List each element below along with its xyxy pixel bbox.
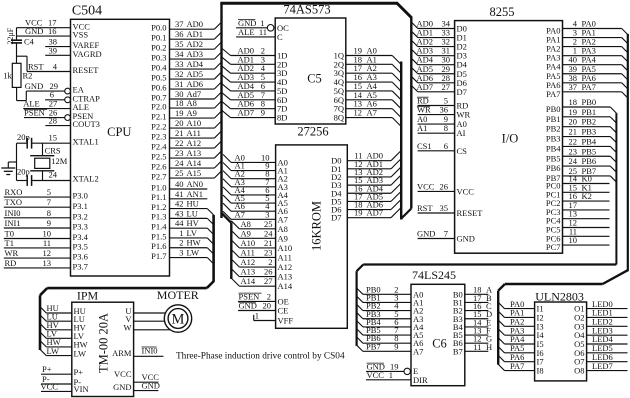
svg-text:22: 22 (569, 136, 578, 146)
wire PB bus to C6 A5 (PB5 7) (357, 329, 363, 335)
svg-text:6: 6 (444, 141, 448, 151)
wire C5 3Q stub A2 (346, 72, 392, 74)
svg-text:W: W (123, 323, 131, 333)
wire 27256 D6 stub AD6 (347, 209, 391, 211)
wire P1 bus to IPM LU (40, 315, 46, 321)
wire bus to 8255 D1 (AD1 33) (411, 31, 418, 38)
svg-text:O8: O8 (574, 366, 584, 376)
wire P1 bus to IPM LV (40, 332, 46, 338)
svg-text:22: 22 (175, 138, 184, 148)
svg-text:C504: C504 (72, 3, 102, 18)
svg-text:LW: LW (187, 248, 200, 258)
svg-text:GND: GND (142, 381, 160, 391)
svg-text:A8: A8 (241, 219, 251, 229)
svg-text:A1: A1 (417, 123, 427, 133)
wire C6 B1 stub 17 B (465, 301, 489, 303)
wire VCC 26 to 8255 (418, 190, 455, 192)
svg-text:CPU: CPU (107, 125, 131, 139)
wire bus to 27256 A0 (223, 154, 231, 162)
wire P1 bus to IPM LW (40, 349, 46, 355)
svg-text:ARM: ARM (112, 348, 132, 358)
svg-text:I/O: I/O (502, 132, 519, 146)
wire CPU P1.6 stub HW (170, 247, 208, 249)
svg-text:16: 16 (48, 26, 57, 36)
svg-text:PB2: PB2 (582, 117, 597, 127)
wire CPU P2.2 stub A10 (170, 127, 215, 129)
svg-text:AD3: AD3 (187, 49, 204, 59)
wire CPU P0.3 stub AD3 (170, 58, 215, 60)
wire bus to C5 1D (AD0 2) (222, 48, 231, 56)
svg-text:P3.6: P3.6 (73, 252, 88, 262)
wire bus to C5 3D (AD2 4) (222, 66, 231, 74)
motor M (three-phase) (164, 305, 191, 332)
IPM right pin names (112, 306, 132, 392)
svg-text:T1: T1 (5, 238, 14, 248)
wire 27256 D3 stub AD3 (347, 184, 391, 186)
wire CPU P1.2 stub HU (170, 208, 208, 210)
wire PB bus to C6 A6 (PB6 8) (357, 337, 363, 343)
svg-text:COUT3: COUT3 (73, 119, 100, 129)
bus PA chamfer to vertical (498, 284, 505, 291)
wire bus to 27256 A11 (231, 249, 239, 257)
wire bus to C5 2D (AD1 3) (222, 57, 231, 65)
svg-text:44: 44 (175, 218, 184, 228)
wire VCC stub to IPM VIN (41, 390, 72, 392)
wire bus to C5 5D (AD4 6) (222, 83, 231, 91)
svg-text:24: 24 (569, 156, 578, 166)
resistor R2 1k (12, 63, 21, 87)
bus PB horizontal (363, 263, 616, 265)
svg-text:A14: A14 (278, 281, 293, 291)
wire IPM GND stub (134, 390, 159, 392)
bus P1 vertical at IPM (39, 295, 42, 350)
bus P1 HU-LW vertical near CPU (212, 215, 215, 282)
wire PSEN 2 to 27256 OE (238, 300, 276, 302)
wire bus to 27256 A4 (223, 187, 231, 195)
8255 right pin names (546, 26, 561, 253)
wire C6 B3 stub 15 D (465, 318, 489, 320)
svg-text:20: 20 (175, 118, 184, 128)
wire bus to 27256 A12 (231, 259, 239, 267)
CPU right pin names P0 P2 P1 (151, 23, 167, 261)
wire pin 1 to 27256 VFF (254, 320, 276, 322)
ULN2803 pin names (537, 304, 586, 376)
wire CPU P0.5 stub AD5 (170, 78, 215, 80)
wire bus to C5 8D (AD7 9) (222, 110, 231, 118)
wire A0 9 to 8255 (418, 123, 455, 125)
wire ULN2803 O3 stub LED2 (587, 325, 628, 327)
wire bus to 8255 D0 (AD0 34) (411, 22, 418, 29)
svg-text:23: 23 (569, 146, 578, 156)
wire bus to 27256 A8 (231, 221, 239, 229)
svg-text:PB3: PB3 (546, 134, 561, 144)
wire CPU P2.1 stub A9 (170, 117, 215, 119)
wire crystal cap rail (16, 143, 18, 180)
wire CPU P0.6 stub AD6 (170, 88, 215, 90)
svg-text:8Q: 8Q (334, 113, 344, 123)
wire PB bus to C6 A4 (PB4 6) (357, 321, 363, 327)
svg-text:22μF: 22μF (6, 27, 15, 44)
wire P+ stub to IPM (41, 373, 72, 375)
wire ALE 11 to C5 C (236, 36, 275, 38)
svg-text:32: 32 (175, 69, 184, 79)
wire bus to 8255 D3 (AD3 31) (411, 49, 418, 56)
bus vertical A0-A7 from 74AS573 outputs (400, 62, 402, 220)
wire C6 B0 stub 18 A (465, 293, 489, 295)
wire PB bus to C6 A1 (PB1 3) (357, 296, 363, 302)
wire PA bus to ULN2803 I5 (PA4) (498, 338, 504, 344)
svg-text:24: 24 (264, 228, 273, 238)
svg-text:A13: A13 (241, 267, 256, 277)
8255 left pin names (457, 24, 484, 244)
wire 8255 PB0 stub to PB bus (563, 106, 611, 108)
wire bus to 27256 A2 (223, 171, 231, 179)
wire bus to C5 6D (AD5 7) (222, 92, 231, 100)
svg-text:A9: A9 (278, 233, 288, 243)
wire C5 2Q stub A1 (346, 63, 392, 65)
svg-text:A11: A11 (241, 247, 255, 257)
wire 8255 PA0 stub to PA bus (563, 28, 622, 30)
svg-text:19: 19 (354, 208, 363, 218)
svg-text:PA7: PA7 (546, 89, 560, 99)
svg-text:I8: I8 (537, 366, 544, 376)
svg-text:TXO: TXO (5, 197, 22, 207)
svg-text:2: 2 (179, 238, 183, 248)
svg-text:A13: A13 (187, 148, 202, 158)
wire RD 5 to 8255 (418, 105, 455, 107)
wire 27256 D5 stub AD5 (347, 200, 391, 202)
bus PB chamfer (357, 265, 364, 272)
wire ULN2803 O5 stub LED4 (587, 343, 628, 345)
wire bus to 27256 A14 (231, 278, 239, 286)
wire 27256 D0 stub AD0 (347, 160, 391, 162)
wire TXO 7 to CPU P3.1 (4, 206, 71, 208)
svg-text:39: 39 (49, 45, 58, 55)
svg-text:37: 37 (569, 82, 578, 92)
svg-text:5: 5 (47, 187, 51, 197)
svg-text:VCC: VCC (367, 370, 385, 380)
capacitor C4 22uF electrolytic (16, 28, 18, 41)
wire 8255 PB7 stub to PB bus (563, 175, 611, 177)
svg-text:DIR: DIR (413, 375, 428, 385)
svg-text:H: H (486, 342, 492, 352)
svg-text:VSS: VSS (73, 30, 89, 40)
wire 8255 PA5 stub to PA bus (563, 73, 622, 75)
svg-text:VCC: VCC (41, 382, 59, 392)
bus lower address vertical (A8-A14) (230, 223, 232, 279)
wire bus to 27256 A13 (231, 269, 239, 277)
wire CPU P2.3 stub A11 (170, 137, 215, 139)
IC ULN2803 driver block (535, 302, 587, 381)
svg-text:20p: 20p (17, 132, 30, 142)
wire C5 7Q stub A6 (346, 108, 392, 110)
ground symbol (earth) (8, 161, 16, 163)
svg-text:PB0: PB0 (546, 104, 561, 114)
svg-text:34: 34 (175, 49, 184, 59)
svg-text:LW: LW (47, 346, 60, 356)
svg-text:P0.3: P0.3 (151, 52, 166, 62)
svg-text:8: 8 (47, 208, 51, 218)
svg-text:A7: A7 (413, 346, 423, 356)
wire ULN2803 O1 stub LED0 (587, 308, 628, 310)
svg-text:15: 15 (49, 133, 58, 143)
wire 8255 PA2 stub to PA bus (563, 46, 622, 48)
wire T0 10 to CPU P3.4 (4, 238, 71, 240)
wire VCC 1 to C6 DIR (366, 379, 411, 381)
wire IPM V to motor (134, 320, 165, 322)
svg-text:C4: C4 (24, 36, 35, 46)
wire INI1 9 to CPU P3.3 (4, 227, 71, 229)
svg-text:33: 33 (175, 59, 184, 69)
svg-text:P0.6: P0.6 (151, 82, 166, 92)
wire PB bus to C6 A0 (PB0 2) (357, 288, 363, 294)
wire 8255 PC0 stub (563, 183, 610, 185)
svg-text:A8: A8 (187, 98, 197, 108)
svg-text:MOTER: MOTER (157, 288, 199, 302)
wire IPM ARM stub INI0 (134, 355, 164, 357)
svg-text:9: 9 (261, 108, 265, 118)
wire C6 B4 stub 14 E (465, 326, 489, 328)
svg-text:43: 43 (175, 208, 184, 218)
svg-text:INI1: INI1 (5, 218, 21, 228)
wire PB bus to C6 A2 (PB2 4) (357, 304, 363, 310)
svg-text:A9: A9 (241, 228, 251, 238)
svg-text:42: 42 (175, 199, 184, 209)
svg-text:P3.3: P3.3 (73, 222, 88, 232)
svg-text:PB4: PB4 (582, 136, 597, 146)
svg-text:P1.0: P1.0 (151, 182, 166, 192)
svg-text:XTAL1: XTAL1 (73, 137, 99, 147)
svg-text:A7: A7 (367, 108, 377, 118)
wire RST 35 to 8255 (418, 212, 455, 214)
svg-text:A14: A14 (187, 158, 202, 168)
wire INI0 8 to CPU P3.2 (4, 217, 71, 219)
svg-text:AN0: AN0 (187, 179, 204, 189)
wire 8255 PC7 stub (563, 244, 610, 246)
svg-text:B7: B7 (453, 346, 463, 356)
wire PA bus to ULN2803 I1 (PA0) (498, 302, 504, 308)
svg-text:A8: A8 (278, 224, 288, 234)
bus P1 diagonal (207, 281, 214, 288)
wire IPM VCC stub (134, 381, 159, 383)
svg-text:P+: P+ (42, 364, 52, 374)
wire 8255 PC1 stub (563, 191, 610, 193)
wire 8255 PB5 stub to PB bus (563, 155, 611, 157)
wire ULN2803 O4 stub LED3 (587, 334, 628, 336)
IPM left pin names (74, 306, 89, 394)
svg-text:GND: GND (113, 382, 131, 392)
svg-text:10: 10 (569, 235, 578, 245)
svg-text:A12: A12 (278, 262, 293, 272)
svg-text:A7: A7 (278, 214, 288, 224)
wire ULN2803 O7 stub LED6 (587, 361, 628, 363)
svg-text:AD7: AD7 (238, 108, 255, 118)
bus PA vertical at ULN2803 (497, 291, 499, 365)
wire 8255 PB2 stub to PB bus (563, 126, 611, 128)
svg-text:PA7: PA7 (582, 82, 596, 92)
wire CPU P1.0 stub AN0 (170, 188, 208, 190)
svg-text:VIN: VIN (74, 384, 89, 394)
svg-text:P1.7: P1.7 (151, 251, 166, 261)
wire 27256 D7 stub AD7 (347, 217, 391, 219)
wire CPU P2.7 stub A15 (170, 177, 215, 179)
svg-text:20p: 20p (17, 167, 30, 177)
svg-text:AN1: AN1 (187, 189, 204, 199)
wire pin 6 to CTRAP (bubble) (45, 99, 65, 101)
svg-text:ALE: ALE (238, 27, 255, 37)
wire P1 bus to IPM HV (40, 324, 46, 330)
bus PB right vertical (615, 113, 617, 264)
svg-text:7: 7 (444, 229, 448, 239)
wire RXO 5 to CPU P3.0 (4, 196, 71, 198)
wire 8255 PC3 stub (563, 209, 610, 211)
wire ULN2803 O6 stub LED5 (587, 352, 628, 354)
svg-text:GND: GND (457, 234, 475, 244)
svg-text:8255: 8255 (490, 5, 515, 19)
svg-text:PB1: PB1 (546, 114, 561, 124)
svg-text:LED7: LED7 (592, 361, 613, 371)
svg-text:LU: LU (187, 208, 198, 218)
svg-text:9: 9 (47, 218, 51, 228)
svg-text:AD0: AD0 (187, 19, 204, 29)
svg-text:P3.2: P3.2 (73, 211, 88, 221)
bus top right diagonal (396, 3, 411, 18)
crystal CRS 12M (42, 143, 44, 156)
svg-text:P2.5: P2.5 (151, 151, 166, 161)
wire CPU P0.1 stub AD1 (170, 38, 215, 40)
svg-text:8D: 8D (277, 113, 287, 123)
CPU left pin names (73, 21, 102, 271)
wire WR 36 to 8255 (418, 114, 455, 116)
svg-text:20: 20 (263, 301, 272, 311)
wire C6 B2 stub 16 C (465, 310, 489, 312)
wire A1 8 to 8255 (418, 132, 455, 134)
svg-text:24: 24 (175, 158, 184, 168)
wire CPU P1.3 stub LU (170, 217, 208, 219)
capacitor 20p on XTAL1 (17, 142, 28, 144)
wire bus to 8255 D4 (AD4 30) (411, 58, 418, 64)
svg-text:VCC: VCC (457, 186, 475, 196)
svg-text:HV: HV (187, 218, 200, 228)
wire bus to C5 7D (AD6 8) (222, 101, 231, 109)
wire C5 6Q stub A5 (346, 99, 392, 101)
svg-text:P0.2: P0.2 (151, 42, 166, 52)
svg-text:XTAL2: XTAL2 (73, 173, 99, 183)
wire GND 1 to C5 OC (bubble) (236, 27, 267, 29)
wire CPU P1.5 stub LV (170, 237, 208, 239)
svg-text:1: 1 (255, 311, 259, 321)
wire pin 38 to VAREF (45, 46, 70, 48)
wire pin 39 to VAGRD (45, 54, 70, 56)
svg-text:M: M (172, 312, 185, 328)
svg-text:C5: C5 (307, 71, 322, 85)
wire bus to 27256 A3 (223, 179, 231, 187)
wire bus to 27256 A7 (223, 211, 231, 219)
svg-text:P0.5: P0.5 (151, 72, 166, 82)
svg-text:HW: HW (187, 238, 201, 248)
svg-text:CE: CE (278, 306, 289, 316)
svg-text:3: 3 (265, 209, 269, 219)
wire CPU P2.4 stub A12 (170, 147, 215, 149)
svg-text:21: 21 (569, 127, 578, 137)
wire 8255 PC2 stub (563, 200, 610, 202)
wire P- stub to IPM (41, 383, 72, 385)
svg-text:VFF: VFF (278, 316, 294, 326)
svg-text:AD7: AD7 (367, 208, 384, 218)
svg-text:D7: D7 (457, 87, 467, 97)
wire C6 B6 stub 12 G (465, 342, 489, 344)
svg-text:23: 23 (264, 247, 273, 257)
wire CPU P2.0 stub A8 (170, 107, 215, 109)
svg-text:AD6: AD6 (187, 79, 204, 89)
wire CPU P0.2 stub AD2 (170, 48, 215, 50)
svg-text:25: 25 (264, 219, 273, 229)
svg-text:R2: R2 (23, 70, 33, 80)
svg-text:D7: D7 (331, 213, 341, 223)
wire CPU P1.7 stub LW (170, 257, 208, 259)
svg-text:37: 37 (175, 19, 184, 29)
svg-text:PB3: PB3 (582, 127, 597, 137)
svg-text:Three-Phase induction drive co: Three-Phase induction drive control by C… (176, 352, 345, 362)
wire RD 13 to CPU P3.7 (4, 267, 71, 269)
svg-text:12M: 12M (51, 156, 68, 166)
27256 right pin names D0-D7 (331, 156, 342, 223)
wire PSEN 26 to PSEN (bubble) (24, 117, 65, 119)
svg-text:RESET: RESET (457, 208, 484, 218)
wire 8255 PA6 stub to PA bus (563, 82, 622, 84)
C6 pin names (413, 289, 464, 385)
svg-text:8: 8 (444, 123, 448, 133)
svg-text:P2.7: P2.7 (151, 171, 166, 181)
wire P1 bus to IPM HW (40, 341, 46, 347)
svg-text:CRS: CRS (45, 146, 61, 156)
wire bus to 27256 A9 (231, 230, 239, 238)
svg-text:GND: GND (25, 26, 43, 36)
wire CPU P2.5 stub A13 (170, 157, 215, 159)
svg-text:PB1: PB1 (582, 107, 597, 117)
wire PA bus to ULN2803 I3 (PA2) (498, 320, 504, 326)
wire 27256 D4 stub AD4 (347, 192, 391, 194)
C5 pin names (277, 23, 344, 123)
svg-text:A13: A13 (278, 272, 293, 282)
svg-text:A12: A12 (187, 138, 202, 148)
svg-text:11: 11 (473, 342, 481, 352)
wire C4/R2 node to RESET (17, 55, 28, 57)
wire GND 19 to C6 E (bubble) (366, 370, 404, 372)
wire PA bus to ULN2803 I4 (PA3) (498, 329, 504, 335)
svg-text:12: 12 (354, 108, 363, 118)
svg-text:2: 2 (268, 257, 272, 267)
bus AD/A left vertical (220, 3, 222, 218)
svg-text:RESET: RESET (73, 65, 100, 75)
svg-text:A12: A12 (241, 257, 256, 267)
wire CPU P1.4 stub HV (170, 227, 208, 229)
svg-text:GND: GND (25, 81, 43, 91)
svg-text:A10: A10 (278, 243, 293, 253)
svg-text:LV: LV (187, 228, 198, 238)
wire bus to 8255 D7 (AD7 27) (411, 85, 418, 92)
wire C5 8Q stub A7 (346, 117, 392, 119)
svg-text:WR: WR (5, 248, 19, 258)
wire C5 5Q stub A4 (346, 90, 392, 92)
svg-text:PB6: PB6 (546, 163, 561, 173)
svg-text:PB2: PB2 (546, 124, 561, 134)
svg-text:3: 3 (179, 248, 183, 258)
svg-text:TM-00 20A: TM-00 20A (97, 313, 111, 373)
svg-text:27: 27 (442, 82, 451, 92)
svg-text:AD7: AD7 (417, 82, 434, 92)
bus PA horizontal (505, 283, 603, 285)
